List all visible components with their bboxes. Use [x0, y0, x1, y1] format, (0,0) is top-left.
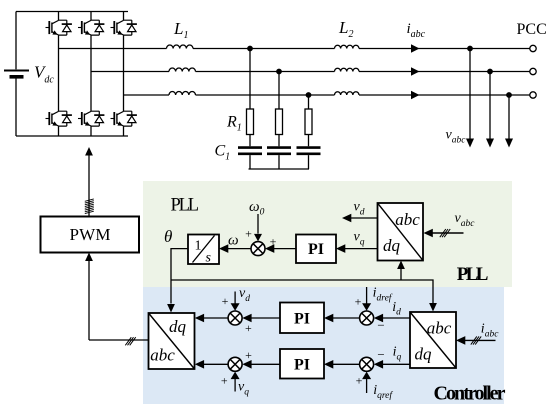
svg-text:+: + — [221, 374, 228, 388]
svg-text:dq: dq — [415, 345, 433, 364]
svg-text:ω: ω — [228, 233, 239, 249]
svg-text:−: − — [377, 347, 384, 362]
svg-text:PCC: PCC — [517, 21, 547, 38]
svg-text:−: − — [377, 318, 384, 333]
svg-text:dq: dq — [383, 236, 401, 255]
svg-text:PLL: PLL — [457, 264, 489, 285]
svg-text:abc: abc — [150, 346, 175, 365]
svg-text:PI: PI — [308, 241, 324, 258]
svg-text:abc: abc — [395, 210, 420, 229]
svg-text:θ: θ — [164, 227, 172, 246]
svg-text:+: + — [245, 321, 252, 335]
svg-text:Controller: Controller — [434, 383, 506, 405]
svg-text:+: + — [355, 294, 362, 308]
svg-text:1: 1 — [195, 239, 202, 254]
svg-text:+: + — [245, 226, 252, 240]
svg-text:dq: dq — [169, 317, 187, 336]
svg-text:PI: PI — [294, 357, 310, 374]
svg-text:+: + — [222, 294, 229, 308]
svg-text:s: s — [206, 251, 212, 266]
svg-text:PI: PI — [294, 311, 310, 328]
svg-text:+: + — [356, 374, 363, 388]
svg-text:+: + — [245, 348, 252, 362]
svg-text:PLL: PLL — [171, 196, 200, 216]
svg-text:PWM: PWM — [70, 225, 111, 244]
svg-text:abc: abc — [427, 319, 452, 338]
